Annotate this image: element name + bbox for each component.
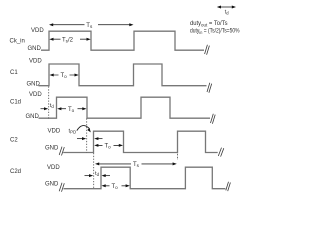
node C1 break: [207, 83, 212, 93]
svg-text:C1: C1: [10, 70, 18, 76]
svg-text:td: td: [225, 9, 230, 15]
svg-text:C2d: C2d: [10, 169, 21, 175]
wire Ts dimension arrow: [52, 24, 131, 26]
node dashed reference C2 rising edge: [93, 153, 95, 189]
svg-text:Ts: Ts: [133, 162, 140, 168]
svg-text:VDD: VDD: [31, 28, 44, 34]
wire C2 waveform: [63, 131, 218, 152]
svg-text:To: To: [112, 184, 119, 190]
wire C1d td arrow: [41, 108, 46, 110]
wire C2d To dimension arrow: [105, 185, 127, 187]
wire C1d waveform: [39, 97, 211, 118]
svg-text:VDD: VDD: [29, 59, 42, 65]
wire C2d waveform: [64, 167, 226, 189]
node C2d left break: [59, 183, 64, 192]
svg-text:Ts: Ts: [86, 23, 93, 29]
wire C1d To dimension arrow: [60, 108, 83, 110]
wire C2 To dimension arrow: [97, 144, 120, 146]
wire C1 To dimension arrow: [53, 74, 76, 76]
wire C2d td arrow right: [105, 175, 111, 177]
svg-text:To: To: [68, 107, 75, 113]
svg-text:GND: GND: [28, 46, 42, 52]
wire Ck_in waveform: [41, 31, 204, 50]
svg-text:td: td: [50, 103, 55, 109]
svg-text:tPD: tPD: [69, 129, 77, 135]
wire Ts/2 dimension arrow: [52, 38, 87, 40]
svg-text:To: To: [61, 73, 68, 79]
svg-text:dutyin = (Ts/2)/Ts=50%: dutyin = (Ts/2)/Ts=50%: [190, 29, 240, 35]
node C2 right break: [218, 148, 224, 157]
node C2 left break: [59, 147, 64, 156]
svg-text:GND: GND: [27, 82, 41, 88]
node dashed reference C2 second rising edge: [177, 154, 179, 160]
svg-text:td: td: [95, 171, 100, 177]
node C2d right break: [226, 182, 231, 191]
svg-text:GND: GND: [26, 114, 40, 120]
wire C2d td arrow left: [85, 175, 91, 177]
svg-text:GND: GND: [45, 182, 59, 188]
wire C1 waveform: [39, 64, 207, 86]
node dashed reference C1 rising edge: [48, 87, 50, 119]
svg-text:To: To: [105, 144, 112, 150]
wire tPD curved arrow: [77, 126, 90, 131]
wire C2d Ts dimension arrow: [98, 163, 174, 165]
node dashed reference C1d falling edge: [86, 119, 88, 153]
svg-text:C1d: C1d: [10, 100, 21, 106]
svg-text:VDD: VDD: [29, 92, 42, 98]
svg-text:VDD: VDD: [48, 128, 61, 134]
wire C2 gap arrow left: [77, 138, 83, 140]
svg-text:Ts/2: Ts/2: [62, 38, 74, 44]
svg-text:dutyout = To/Ts: dutyout = To/Ts: [190, 21, 228, 27]
svg-text:C2: C2: [10, 138, 18, 144]
svg-text:Ck_in: Ck_in: [10, 39, 25, 45]
wire C2 gap arrow right: [97, 138, 102, 140]
node C1d break: [211, 114, 216, 124]
svg-text:GND: GND: [45, 146, 59, 152]
node Ck_in break: [205, 45, 210, 55]
svg-text:VDD: VDD: [47, 165, 60, 171]
wire td dimension arrow top right: [220, 6, 234, 8]
